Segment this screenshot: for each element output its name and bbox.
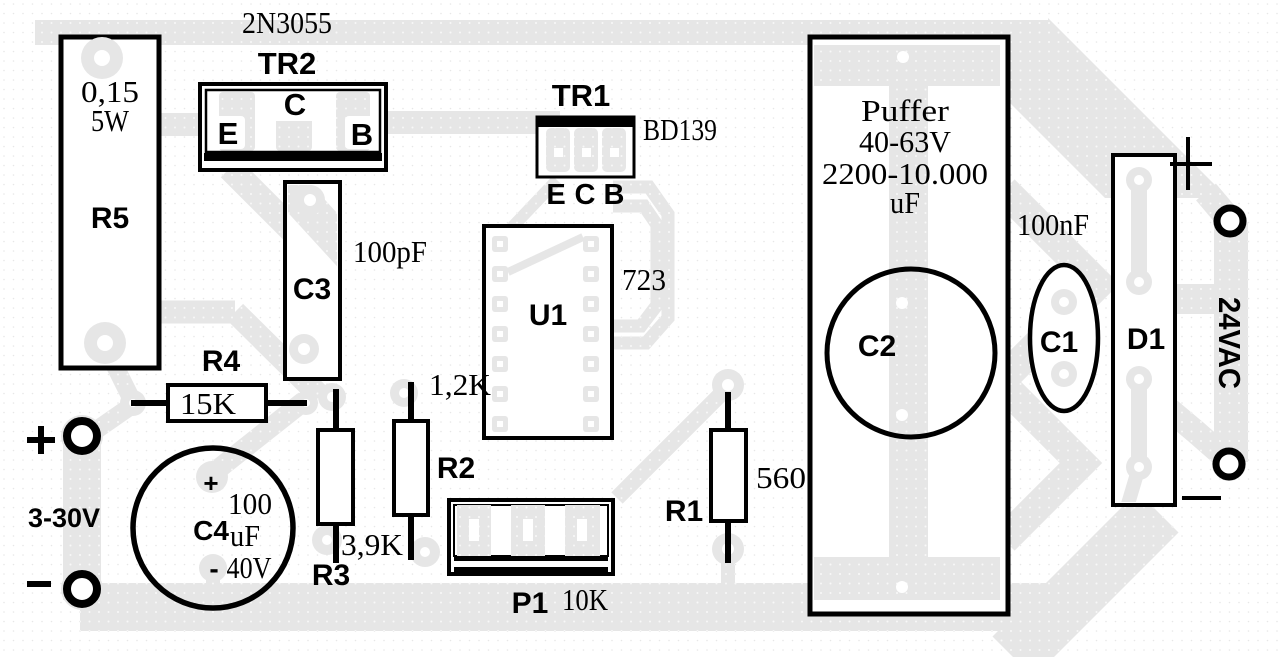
svg-text:1,2K: 1,2K: [429, 367, 492, 402]
wire node to R3: [235, 312, 320, 396]
resistor R1: [711, 392, 746, 563]
pad R1 top: [712, 369, 744, 401]
pad R2 top: [390, 379, 418, 407]
wire C4 plus diagonal: [217, 401, 304, 470]
wire R5 to TR2: [95, 113, 222, 136]
wire R5 pad to R4: [104, 344, 133, 402]
resistor R5: [61, 37, 159, 368]
svg-text:R5: R5: [91, 202, 129, 235]
resistor R2: [394, 382, 428, 560]
svg-text:723: 723: [622, 262, 666, 297]
wire bottom bus: [80, 583, 1080, 631]
resistor R3: [318, 389, 353, 563]
wire bottom-right swath: [1013, 512, 1158, 657]
pad R1 bottom: [712, 533, 744, 565]
svg-text:40-63V: 40-63V: [859, 124, 952, 159]
capacitor C4: [133, 448, 293, 608]
svg-text:10K: 10K: [562, 582, 609, 617]
svg-text:B: B: [351, 117, 373, 152]
wire D1 pad3 to minus ring: [1146, 390, 1228, 460]
wire TR1 to U1 diagonal: [500, 180, 557, 240]
pad R3 top: [318, 383, 346, 411]
wire left terminal band: [63, 428, 101, 600]
svg-text:24VAC: 24VAC: [1212, 297, 1247, 389]
wire R1 bottom stub: [721, 549, 735, 588]
wire octagon inner: [610, 206, 657, 326]
capacitor C1: [1030, 265, 1098, 411]
svg-text:uF: uF: [230, 518, 260, 553]
svg-text:3,9K: 3,9K: [341, 527, 404, 562]
svg-text:R3: R3: [312, 559, 350, 592]
svg-text:15K: 15K: [180, 386, 237, 421]
pad terminal plus right: [1213, 204, 1247, 238]
wire octagon outer: [610, 187, 668, 343]
wire wedge to plus ring: [1206, 192, 1228, 218]
svg-text:Puffer: Puffer: [861, 93, 950, 128]
svg-text:100nF: 100nF: [1017, 207, 1089, 242]
wire TR2 to C3 diagonal: [230, 168, 330, 268]
svg-text:P1: P1: [512, 587, 549, 620]
svg-text:R4: R4: [202, 345, 241, 378]
svg-text:100pF: 100pF: [353, 234, 427, 269]
pad C4 minus: [199, 554, 227, 582]
svg-text:100: 100: [228, 486, 272, 521]
svg-text:B: B: [604, 179, 625, 211]
wire C4 minus stub: [206, 568, 220, 590]
svg-text:uF: uF: [890, 185, 920, 220]
svg-text:560: 560: [756, 460, 806, 495]
capacitor C3: [266, 162, 352, 379]
svg-text:E: E: [218, 116, 239, 151]
svg-text:+: +: [203, 468, 218, 498]
svg-text:C2: C2: [858, 330, 896, 363]
svg-text:5W: 5W: [91, 103, 130, 138]
svg-text:C3: C3: [293, 273, 331, 306]
capacitor C2: [810, 37, 1008, 614]
svg-text:D1: D1: [1127, 323, 1165, 356]
wire top bus: [35, 20, 1048, 45]
pad C4 plus: [196, 461, 228, 493]
wire R5 pad to node: [107, 312, 235, 345]
terminal minus right: [1182, 451, 1242, 498]
svg-text:2N3055: 2N3055: [242, 5, 332, 40]
svg-text:BD139: BD139: [643, 112, 717, 147]
wire plus pad to R4: [95, 406, 131, 431]
svg-text:C: C: [575, 179, 596, 211]
wire TR2 to TR1: [380, 111, 560, 134]
wire chevron lower: [1004, 386, 1081, 540]
svg-text:U1: U1: [529, 299, 567, 332]
svg-text:TR2: TR2: [258, 46, 317, 81]
terminal plus right: [1170, 137, 1243, 234]
terminal minus left: [27, 574, 97, 604]
svg-text:E: E: [546, 179, 565, 211]
transistor TR1: [537, 116, 634, 177]
svg-text:C: C: [284, 87, 306, 122]
pad R2 bottom: [410, 537, 440, 567]
wire right vertical band: [1214, 222, 1248, 462]
svg-text:R2: R2: [437, 452, 475, 485]
pad R4 left: [120, 390, 146, 416]
wire top-right diagonal: [1000, 18, 1215, 198]
pad terminal minus right: [1212, 447, 1246, 481]
svg-text:3-30V: 3-30V: [28, 503, 100, 533]
svg-text:-: -: [209, 553, 218, 584]
diode bridge D1: [1113, 155, 1175, 505]
svg-text:C4: C4: [193, 515, 229, 546]
svg-text:40V: 40V: [227, 550, 273, 585]
terminal plus left: [27, 421, 97, 454]
wire chevron upper: [1004, 190, 1098, 378]
wire R1 top pad to P1: [617, 390, 725, 498]
potentiometer P1: [449, 500, 613, 574]
pad terminal minus left: [61, 568, 103, 610]
svg-text:C1: C1: [1040, 326, 1078, 359]
transistor TR2: [200, 84, 386, 170]
op-amp U1: [484, 226, 612, 438]
wire D1 to band connector: [1146, 284, 1231, 314]
pad R3 bottom: [312, 525, 342, 555]
svg-text:TR1: TR1: [552, 78, 611, 113]
pad terminal plus left: [61, 415, 103, 457]
pad R4 right: [294, 391, 318, 415]
resistor R4: [131, 385, 307, 421]
svg-text:R1: R1: [665, 495, 703, 528]
